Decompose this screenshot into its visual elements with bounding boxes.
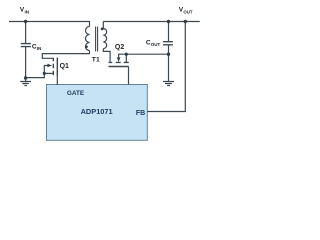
svg-text:IN: IN: [37, 46, 42, 51]
svg-text:Q1: Q1: [60, 63, 69, 70]
svg-text:FB: FB: [136, 110, 145, 117]
svg-text:ADP1071: ADP1071: [81, 107, 113, 116]
svg-text:Q2: Q2: [115, 44, 124, 51]
svg-text:OUT: OUT: [151, 42, 161, 47]
svg-text:IN: IN: [25, 10, 30, 15]
svg-text:T1: T1: [92, 56, 100, 63]
svg-text:OUT: OUT: [183, 10, 192, 15]
svg-text:GATE: GATE: [67, 90, 85, 97]
